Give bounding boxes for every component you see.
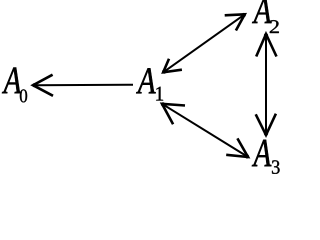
- arrow A1 to A2 double: [162, 13, 246, 74]
- arrow A1 to A3 double: [161, 102, 249, 158]
- node A1: italic A with subscript 1: [136, 68, 163, 100]
- arrow A2 to A3 double: [256, 33, 277, 136]
- node A3: italic A with subscript 3: [252, 140, 280, 174]
- node A0: italic A with subscript 0: [2, 68, 27, 103]
- arrow A1 to A0: [32, 75, 133, 96]
- node A2: italic A with subscript 2: [252, 0, 279, 33]
